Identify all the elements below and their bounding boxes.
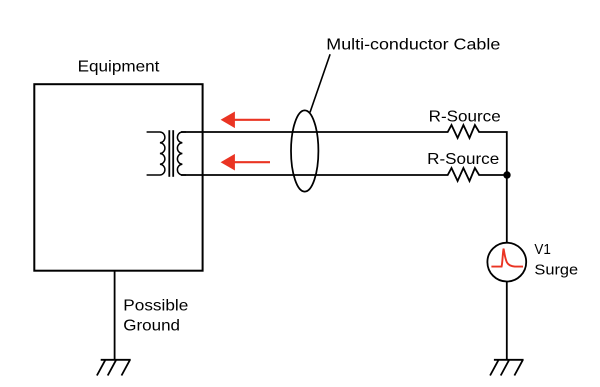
svg-text:Equipment: Equipment xyxy=(78,58,160,75)
svg-text:Surge: Surge xyxy=(534,262,578,278)
svg-text:R-Source: R-Source xyxy=(429,108,501,125)
svg-text:V1: V1 xyxy=(534,242,551,258)
svg-text:R-Source: R-Source xyxy=(427,151,499,168)
svg-text:Multi-conductor Cable: Multi-conductor Cable xyxy=(326,37,500,54)
svg-text:Possible: Possible xyxy=(123,298,188,315)
svg-text:Ground: Ground xyxy=(123,318,180,335)
